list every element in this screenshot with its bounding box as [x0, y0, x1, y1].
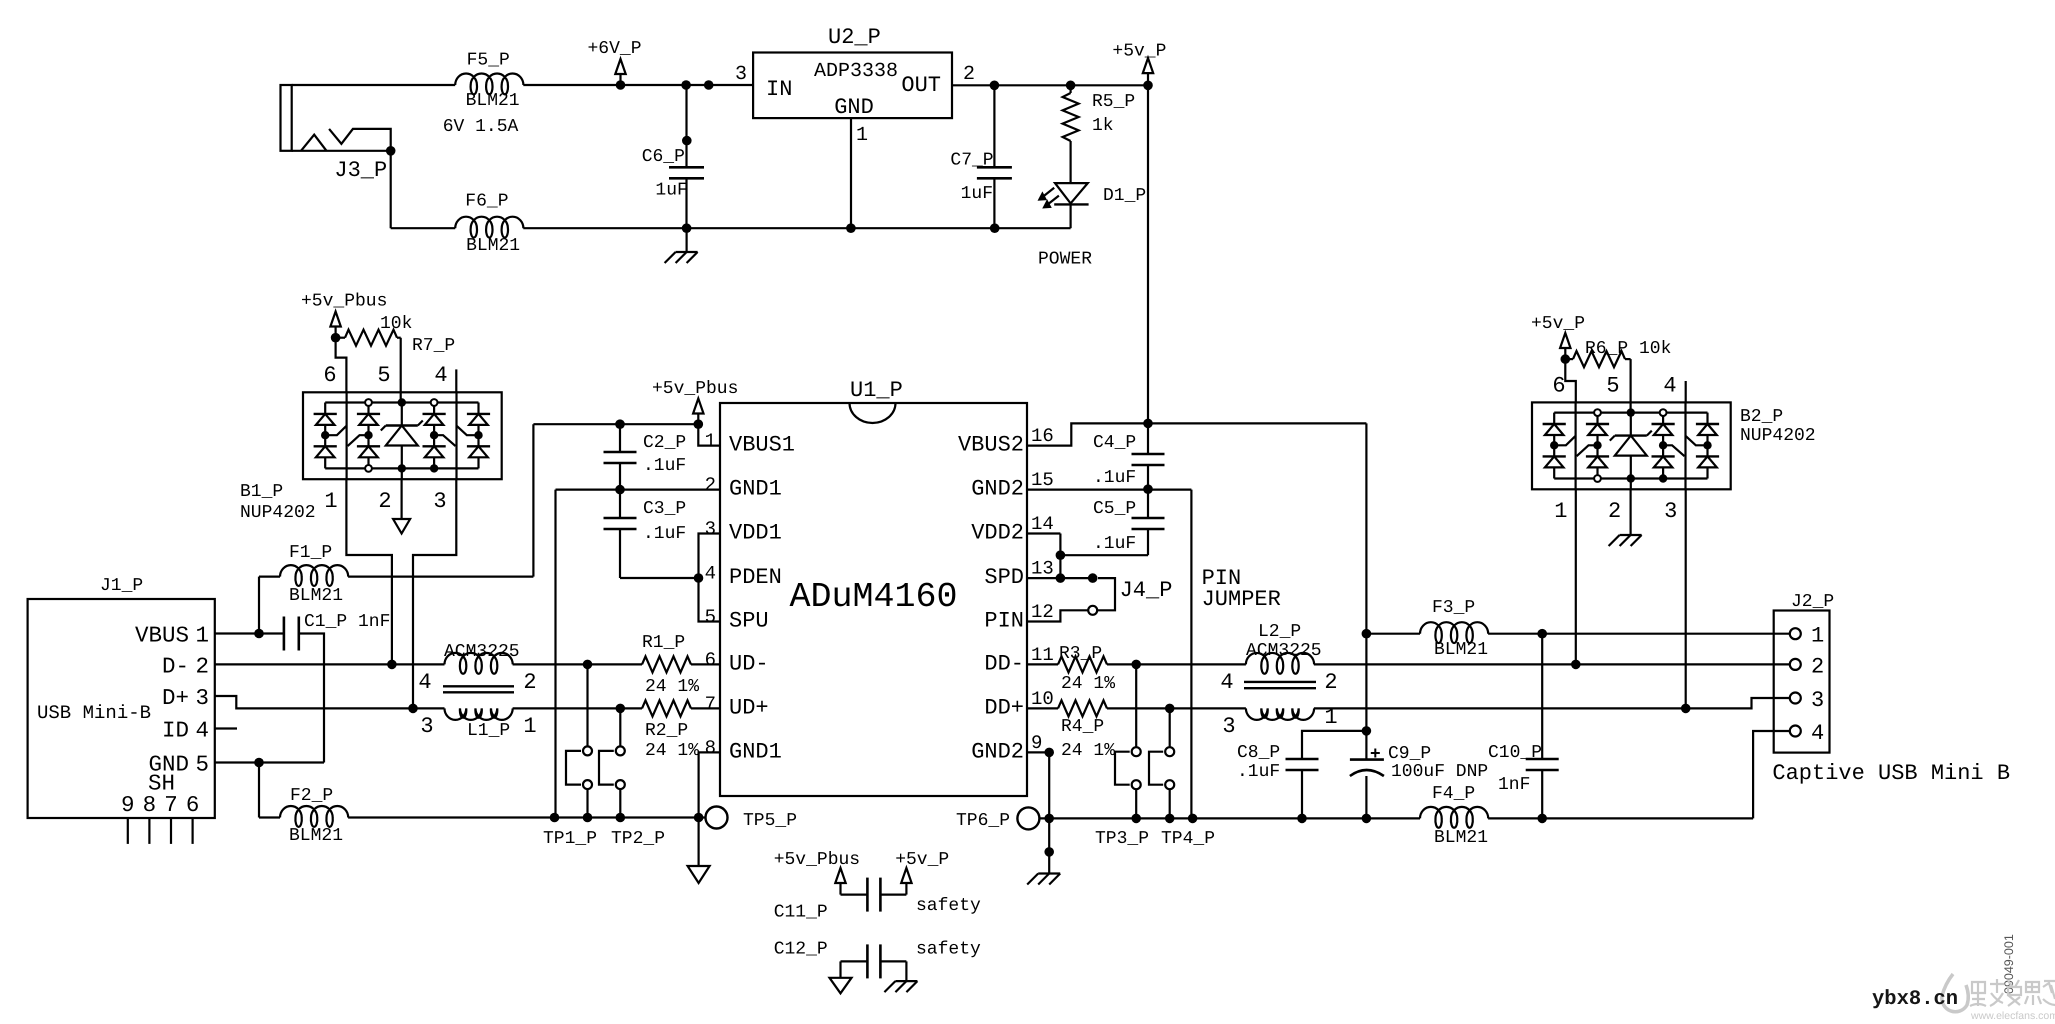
- svg-text:OUT: OUT: [901, 73, 941, 98]
- resistor R4_P: [1058, 700, 1107, 716]
- wire +5v_P to B2 pin 6: [1565, 359, 1576, 402]
- svg-text:L1_P: L1_P: [467, 721, 510, 741]
- ESD array B2_P box: [1532, 402, 1731, 489]
- GND2 ground rail: [1039, 817, 1420, 819]
- svg-text:J1_P: J1_P: [100, 576, 143, 596]
- wire DD+ to J2 pin 3: [1314, 698, 1790, 708]
- test point TP5_P: [706, 807, 728, 829]
- wire B2 pin 3 down: [1685, 489, 1687, 708]
- junction VDD2/SPD: [1056, 573, 1066, 583]
- svg-text:6: 6: [705, 649, 716, 671]
- wire B1 pin 1 to D- net: [346, 479, 392, 664]
- GND2 rail to J2 pin 4: [1488, 817, 1753, 819]
- B2_P pin 6-1 through line: [1574, 402, 1576, 489]
- svg-text:C7_P: C7_P: [950, 151, 993, 171]
- L2 core lines: [1244, 681, 1316, 683]
- wire U2 OUT to +5v_P: [952, 84, 1148, 86]
- wire J1 D+ jog: [215, 696, 445, 708]
- junction R5 tap: [1066, 81, 1076, 91]
- svg-text:6: 6: [1552, 374, 1565, 399]
- B2_P steering diode column 3 (upper): [1652, 423, 1675, 425]
- svg-text:8: 8: [705, 737, 716, 759]
- connector J1_P USB Mini-B box: [28, 599, 215, 818]
- capacitor C7_P: [977, 166, 1012, 169]
- junction C2/C3: [615, 485, 625, 495]
- signal ground (C12): [830, 978, 852, 994]
- svg-text:2: 2: [523, 670, 536, 695]
- junction DD- / TP3: [1131, 660, 1141, 670]
- B2_P steering diode column 2 (upper): [1586, 423, 1609, 425]
- common-mode choke L2_P top winding: [1246, 653, 1314, 674]
- svg-text:POWER: POWER: [1038, 250, 1092, 270]
- GND1 rail ground stub: [697, 818, 699, 867]
- junction C7 ground: [990, 223, 1000, 233]
- wire ADuM pin 14 VDD2: [1027, 532, 1060, 534]
- svg-text:16: 16: [1031, 425, 1054, 447]
- svg-text:C5_P: C5_P: [1093, 499, 1136, 519]
- +5v_P branch down to F3: [1365, 423, 1367, 759]
- B1_P internal bottom bus: [325, 467, 478, 469]
- J2 pin 3 circle: [1790, 693, 1801, 704]
- B2 pin 2 ground wire: [1629, 489, 1631, 535]
- svg-text:DD-: DD-: [984, 651, 1024, 676]
- svg-text:4: 4: [1663, 374, 1676, 399]
- B1 pin 4 stub: [455, 369, 457, 392]
- svg-text:+5v_P: +5v_P: [1112, 42, 1166, 62]
- svg-text:2: 2: [963, 63, 975, 86]
- C12 left ground wire: [839, 961, 841, 977]
- svg-text:4: 4: [1220, 670, 1233, 695]
- resistor R5_P: [1069, 85, 1071, 93]
- svg-text:L2_P: L2_P: [1258, 622, 1301, 642]
- capacitor C7_P upper lead: [993, 85, 995, 167]
- junction U2 GND: [846, 223, 856, 233]
- wire B1 pin 3 to D+ net: [413, 479, 456, 708]
- B2_P diagonal taps to pin lines: [1554, 436, 1575, 446]
- wire F3 to J2 pin 1: [1488, 633, 1790, 635]
- svg-text:1: 1: [1811, 624, 1824, 649]
- junction +5v_P: [1143, 81, 1153, 91]
- junction D- / B1 pin 1: [387, 660, 397, 670]
- svg-text:R1_P: R1_P: [642, 633, 685, 653]
- junction C4/C5: [1143, 484, 1153, 494]
- junction UD+ / TP2: [616, 704, 626, 714]
- jumper TP1 column: [586, 664, 588, 746]
- svg-text:Captive USB Mini B: Captive USB Mini B: [1772, 761, 2010, 786]
- junction C6 tap: [681, 80, 691, 90]
- svg-text:1uF: 1uF: [961, 184, 993, 204]
- B1_P steering diode column 4 (upper): [467, 413, 490, 415]
- svg-text:BLM21: BLM21: [1434, 640, 1488, 660]
- svg-text:1: 1: [324, 489, 337, 514]
- svg-text:UD+: UD+: [729, 695, 769, 720]
- GND2 earth ground stub: [1048, 818, 1050, 873]
- B2_P steering diode column 4 (upper): [1696, 423, 1719, 425]
- B1 pin 2 ground wire: [401, 479, 403, 519]
- U2 GND pin wire: [850, 118, 852, 228]
- watermark chinese characters: [1970, 979, 2055, 1006]
- isolator U1_P ADuM4160 box: [720, 403, 1027, 796]
- junction F3 branch: [1362, 629, 1372, 639]
- wire DD- to J2 pin 2: [1314, 663, 1790, 665]
- svg-text:4: 4: [196, 718, 210, 744]
- J1 ID stub: [215, 727, 237, 729]
- junction GND5: [254, 758, 264, 768]
- wire R1 to ADuM pin 6: [691, 663, 720, 665]
- capacitor C3_P: [619, 490, 621, 518]
- junction +5v_P / C4: [1143, 419, 1153, 429]
- svg-text:R3_P: R3_P: [1059, 644, 1102, 664]
- svg-text:NUP4202: NUP4202: [240, 503, 316, 523]
- junction C9/rail: [1362, 814, 1372, 824]
- junction pin 9: [1044, 748, 1054, 758]
- svg-text:BLM21: BLM21: [1434, 828, 1488, 848]
- svg-text:6: 6: [323, 363, 336, 388]
- ferrite bead F3_P: [1420, 622, 1488, 643]
- svg-text:TP6_P: TP6_P: [956, 811, 1010, 831]
- capacitor C11_P (safety): [841, 893, 868, 895]
- capacitor C6_P upper lead: [685, 85, 687, 167]
- junction C6 ground: [682, 223, 692, 233]
- J2 pin 4 circle: [1790, 726, 1801, 737]
- svg-text:2: 2: [378, 489, 391, 514]
- resistor R6_P: [1565, 358, 1573, 360]
- svg-text:+5v_Pbus: +5v_Pbus: [774, 850, 860, 870]
- junction GND2 vert/rail: [1188, 814, 1198, 824]
- svg-text:GND2: GND2: [971, 477, 1024, 502]
- earth ground (power): [685, 228, 687, 252]
- signal ground (GND1 rail): [688, 866, 710, 883]
- ground rail F6 to LED: [523, 227, 1070, 229]
- svg-text:BLM21: BLM21: [289, 586, 343, 606]
- svg-text:10: 10: [1031, 688, 1054, 710]
- svg-text:5: 5: [377, 363, 390, 388]
- wire R3 to L2: [1107, 663, 1246, 665]
- junction GND1 wire: [550, 813, 560, 823]
- junction TP2: [616, 813, 626, 823]
- ESD array B1_P box: [303, 392, 502, 479]
- svg-text:24 1%: 24 1%: [645, 741, 699, 761]
- svg-text:C4_P: C4_P: [1093, 433, 1136, 453]
- svg-text:.1uF: .1uF: [1093, 468, 1136, 488]
- ferrite bead F4_P: [1420, 807, 1488, 828]
- svg-text:3: 3: [433, 489, 446, 514]
- svg-text:SPD: SPD: [984, 565, 1024, 590]
- svg-text:R2_P: R2_P: [645, 721, 688, 741]
- svg-text:F3_P: F3_P: [1432, 598, 1475, 618]
- svg-text:DD+: DD+: [984, 695, 1024, 720]
- svg-text:C2_P: C2_P: [643, 433, 686, 453]
- B2_P internal bottom bus: [1554, 477, 1707, 479]
- wire ADuM pin 16 to +5v_P: [1027, 423, 1148, 445]
- B1_P steering diode column 1 (lower): [314, 445, 337, 447]
- B1_P internal junction dots and node circles: [321, 431, 329, 439]
- svg-text:+5v_P: +5v_P: [1531, 314, 1585, 334]
- GND1 ground rail: [348, 816, 705, 818]
- svg-text:ADP3338: ADP3338: [814, 60, 898, 83]
- svg-text:1: 1: [523, 714, 536, 739]
- svg-text:ACM3225: ACM3225: [444, 642, 520, 662]
- junction near IN pin: [704, 80, 714, 90]
- B2 pin 4 stub: [1685, 381, 1687, 402]
- svg-text:+5v_P: +5v_P: [895, 850, 949, 870]
- svg-text:PIN: PIN: [984, 609, 1024, 634]
- svg-text:U1_P: U1_P: [850, 378, 903, 403]
- capacitor C6_P: [669, 166, 704, 169]
- svg-text:+6V_P: +6V_P: [588, 39, 642, 59]
- J2 pin 2 circle: [1790, 659, 1801, 670]
- junction pin9/rail: [1044, 814, 1054, 824]
- svg-text:3: 3: [705, 518, 716, 540]
- svg-text:F2_P: F2_P: [290, 786, 333, 806]
- capacitor C2_P: [619, 424, 621, 452]
- svg-text:JUMPER: JUMPER: [1202, 587, 1281, 612]
- svg-text:C6_P: C6_P: [642, 147, 685, 167]
- junction at J3 output: [386, 146, 396, 156]
- svg-text:C9_P: C9_P: [1388, 744, 1431, 764]
- capacitor C8_P: [1286, 758, 1319, 761]
- wire R7 to B1 pin 5: [400, 338, 402, 403]
- B2_P internal top bus: [1554, 412, 1707, 414]
- capacitor C1_P: [283, 617, 286, 651]
- svg-text:14: 14: [1031, 513, 1054, 535]
- svg-text:1nF: 1nF: [1498, 775, 1530, 795]
- common-mode choke L2_P bottom winding: [1246, 708, 1314, 720]
- B2_P steering diode column 1 (lower): [1543, 455, 1566, 457]
- capacitor C12_P (safety): [841, 960, 868, 962]
- jumper TP3 bracket: [1115, 752, 1130, 785]
- svg-text:UD-: UD-: [729, 651, 769, 676]
- capacitor C5_P: [1147, 490, 1149, 518]
- svg-text:J3_P: J3_P: [334, 158, 387, 183]
- svg-text:ACM3225: ACM3225: [1246, 641, 1322, 661]
- wire C5 to VDD2 node: [1060, 554, 1148, 556]
- svg-text:GND2: GND2: [971, 739, 1024, 764]
- wire to F3: [1366, 633, 1420, 635]
- B1_P steering diode column 2 (lower): [357, 445, 380, 447]
- svg-text:C12_P: C12_P: [774, 940, 828, 960]
- svg-text:1uF: 1uF: [655, 181, 687, 201]
- svg-text:24 1%: 24 1%: [1061, 741, 1115, 761]
- svg-text:IN: IN: [766, 77, 792, 102]
- jumper TP3 column: [1135, 664, 1137, 747]
- svg-text:1: 1: [1554, 499, 1567, 524]
- wire GND1 down to test rail: [554, 490, 556, 818]
- +5v_P vertical from power section: [1147, 85, 1149, 423]
- svg-text:4: 4: [418, 670, 431, 695]
- svg-text:safety: safety: [916, 896, 981, 916]
- wire F5 to U2 IN: [523, 84, 753, 86]
- svg-text:6: 6: [186, 792, 200, 818]
- junction C10/rail: [1537, 814, 1547, 824]
- J1 shield pin stubs: [127, 818, 129, 844]
- wire C8 top: [1302, 731, 1366, 759]
- wire L1 to R2: [513, 707, 642, 709]
- junction DD- / B2 pin 1: [1571, 660, 1581, 670]
- junction TP4/rail: [1165, 814, 1175, 824]
- power flag +5v_Pbus (C2): [693, 399, 703, 414]
- C12 right ground wire: [905, 961, 907, 981]
- common-mode choke L1_P top winding: [445, 653, 513, 674]
- svg-text:TP1_P: TP1_P: [543, 829, 597, 849]
- ferrite bead F2_P: [280, 806, 348, 827]
- +5v_Pbus rail to pin 1: [533, 423, 698, 425]
- svg-text:GND1: GND1: [729, 477, 782, 502]
- B1_P steering diode column 1 (upper): [314, 413, 337, 415]
- wire ADuM pin 15 GND2: [1027, 489, 1191, 491]
- svg-text:.1uF: .1uF: [643, 524, 686, 544]
- junction +5v_P / R6: [1561, 354, 1571, 364]
- junction DD+ / B2 pin 3: [1681, 704, 1691, 714]
- wire L1 to R1: [513, 663, 642, 665]
- svg-text:C3_P: C3_P: [643, 499, 686, 519]
- svg-text:2: 2: [1608, 499, 1621, 524]
- svg-text:BLM21: BLM21: [466, 91, 520, 111]
- svg-text:F5_P: F5_P: [467, 51, 510, 71]
- svg-text:8: 8: [143, 792, 157, 818]
- +5v_P rail to F3 branch: [1148, 422, 1366, 424]
- svg-text:3: 3: [1664, 499, 1677, 524]
- wire GND5 down to F2: [258, 763, 260, 818]
- svg-text:5: 5: [705, 606, 716, 628]
- wire to ADuM pin 1: [698, 424, 720, 445]
- svg-text:.1uF: .1uF: [1237, 762, 1280, 782]
- wire VBUS up to F1: [258, 577, 260, 634]
- B1_P steering diode column 2 (upper): [357, 413, 380, 415]
- B2_P steering diode column 2 (lower): [1586, 455, 1609, 457]
- svg-text:2: 2: [1811, 654, 1824, 679]
- wire B2 pin 1 down: [1575, 489, 1577, 664]
- power flag +5v_P (C11): [901, 868, 911, 883]
- jumper J4_P lower pin: [1088, 606, 1097, 615]
- svg-text:1: 1: [196, 623, 210, 649]
- junction TP1: [583, 813, 593, 823]
- junction C8/C9 node: [1362, 726, 1372, 736]
- svg-text:www.elecfans.com: www.elecfans.com: [1970, 1010, 2055, 1022]
- B2_P internal junction dots and node circles: [1550, 441, 1558, 449]
- svg-text:4: 4: [434, 363, 447, 388]
- svg-text:PDEN: PDEN: [729, 565, 782, 590]
- svg-text:C10_P: C10_P: [1488, 743, 1542, 763]
- B1_P pin 4-3 through line: [455, 392, 457, 479]
- svg-text:13: 13: [1031, 558, 1054, 580]
- svg-text:7: 7: [164, 792, 178, 818]
- svg-text:.1uF: .1uF: [643, 456, 686, 476]
- jumper TP2 bracket: [599, 751, 614, 785]
- B1_P steering diode column 3 (lower): [423, 445, 446, 447]
- B2_P steering diode column 3 (lower): [1652, 455, 1675, 457]
- wire R4 to L2: [1107, 707, 1246, 709]
- resistor R1_P: [642, 656, 691, 672]
- svg-text:ADuM4160: ADuM4160: [789, 577, 957, 617]
- svg-text:VBUS2: VBUS2: [958, 433, 1024, 458]
- svg-text:D1_P: D1_P: [1103, 186, 1146, 206]
- junction TP3/rail: [1131, 814, 1141, 824]
- GND1 wire pin 2: [556, 489, 721, 491]
- B1_P TVS zener diode: [401, 403, 403, 426]
- svg-text:5: 5: [196, 752, 210, 778]
- svg-text:TP2_P: TP2_P: [611, 829, 665, 849]
- junction on C6 lead: [682, 136, 692, 146]
- svg-text:2: 2: [705, 474, 716, 496]
- svg-text:F1_P: F1_P: [289, 543, 332, 563]
- svg-text:J4_P: J4_P: [1120, 578, 1173, 603]
- svg-text:3: 3: [196, 685, 210, 711]
- wire R2 to ADuM pin 7: [691, 707, 720, 709]
- svg-text:B2_P: B2_P: [1740, 407, 1783, 427]
- svg-text:ID: ID: [162, 718, 189, 744]
- svg-text:1: 1: [856, 124, 868, 147]
- resistor R2_P: [642, 700, 691, 716]
- junction VDD2/C5: [1056, 550, 1066, 560]
- svg-text:USB Mini-B: USB Mini-B: [37, 702, 151, 724]
- wire J1 GND: [215, 761, 324, 763]
- jumper J4_P bracket: [1098, 578, 1115, 610]
- svg-text:R6_P 10k: R6_P 10k: [1585, 339, 1671, 359]
- svg-text:R7_P: R7_P: [412, 336, 455, 356]
- ferrite bead F1_P: [280, 565, 348, 586]
- junction D+ / B1 pin 3: [408, 704, 418, 714]
- B1_P steering diode column 3 (upper): [423, 413, 446, 415]
- svg-text:09049-001: 09049-001: [2002, 934, 2016, 994]
- wire ADuM pin 11 to R3: [1027, 663, 1058, 665]
- svg-text:24 1%: 24 1%: [645, 677, 699, 697]
- watermark logo swoosh: [1942, 974, 1968, 1012]
- capacitor C6_P lower lead: [685, 178, 687, 228]
- resistor R3_P: [1058, 656, 1107, 672]
- junction ADuM pin8: [694, 813, 704, 823]
- wire rail up to J2 pin 4: [1753, 731, 1790, 818]
- junction DD+ / TP4: [1165, 704, 1175, 714]
- svg-text:11: 11: [1031, 644, 1054, 666]
- wire ADuM pin 10 to R4: [1027, 707, 1058, 709]
- svg-text:9: 9: [121, 792, 135, 818]
- wire J1 D-: [215, 663, 445, 665]
- power flag +5v_P (regulator output): [1143, 58, 1153, 73]
- svg-text:1: 1: [705, 430, 716, 452]
- J2 pin 1 circle: [1790, 628, 1801, 639]
- wire C3 to PDEN: [620, 577, 699, 579]
- wire +5v_Pbus to B1 pin 6: [336, 338, 347, 393]
- svg-text:VBUS: VBUS: [135, 623, 189, 649]
- svg-text:safety: safety: [916, 940, 981, 960]
- jumper J4_P upper pin: [1088, 573, 1098, 583]
- junction C8/rail: [1297, 814, 1307, 824]
- svg-text:.1uF: .1uF: [1093, 534, 1136, 554]
- jumper TP4 bracket: [1149, 752, 1163, 785]
- B1_P internal top bus: [325, 401, 478, 403]
- power section ground rail: [390, 151, 392, 228]
- svg-text:D-: D-: [162, 653, 189, 679]
- power flag +5v_Pbus (C11): [835, 868, 845, 883]
- jumper TP1 bracket: [566, 751, 581, 785]
- svg-text:TP3_P: TP3_P: [1095, 829, 1149, 849]
- jumper TP4 column: [1169, 708, 1171, 747]
- svg-text:BLM21: BLM21: [466, 236, 520, 256]
- svg-text:B1_P: B1_P: [240, 482, 283, 502]
- svg-text:10k: 10k: [380, 314, 412, 334]
- svg-text:7: 7: [705, 693, 716, 715]
- LED D1_P: [1055, 183, 1088, 203]
- svg-text:+5v_Pbus: +5v_Pbus: [301, 292, 387, 312]
- svg-text:GND1: GND1: [729, 739, 782, 764]
- B2_P steering diode column 1 (upper): [1543, 423, 1566, 425]
- regulator U2_P box: [753, 53, 952, 119]
- svg-text:3: 3: [1811, 688, 1824, 713]
- junction UD- / TP1: [583, 660, 593, 670]
- junction C2 top: [615, 419, 625, 429]
- wire R6 to B2 pin 5: [1629, 359, 1631, 413]
